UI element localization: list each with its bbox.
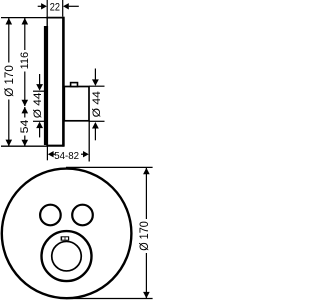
thermostat knob outer [42,231,92,281]
ticks [33,90,46,92]
left extension line [46,0,48,17]
dimension Ø 170 (right) [139,168,151,299]
right arrow [63,3,69,9]
dimension 22 (top) [38,0,79,17]
concealed body box [64,87,89,121]
right arrow [83,151,89,157]
bottom arrow [92,122,99,129]
left extension line [46,146,48,160]
svg-text:54: 54 [19,120,31,134]
dimension 116 (left inner upper) [19,18,31,106]
select button right [72,205,93,226]
top arrow (outside, pointing down) [39,74,41,85]
select button left [40,205,61,226]
knob index marker [61,236,70,240]
top arrow [94,69,96,80]
extension line top-left (plate top to left dims) [1,17,47,19]
dimension Ø 44 (right, cartridge) [89,69,104,141]
left arrow [48,151,54,157]
svg-text:Ø 44: Ø 44 [32,93,44,119]
svg-text:Ø 170: Ø 170 [139,221,151,251]
svg-text:22: 22 [50,2,60,14]
left thin upper segment [46,17,48,27]
right edge [62,17,65,147]
right extension line [62,0,64,17]
svg-text:116: 116 [19,52,31,70]
extension line bottom [66,298,153,300]
plate circle Ø170 [2,169,132,299]
top edge [46,17,64,19]
dimension 54 (left inner lower) [19,107,31,146]
svg-text:54-82: 54-82 [54,151,79,162]
thermostat knob inner ring [52,241,82,271]
extension line top (circle top to right dim) [66,166,153,168]
bottom arrow (outside, pointing up) [36,122,43,129]
dimension Ø 170 (left outer) [4,18,16,146]
dimension Ø 44 (left, handle) [32,74,45,137]
plate (escutcheon) side profile [44,17,64,147]
ticks [89,85,104,87]
left thick face bar [44,26,48,145]
nub on box top [71,83,78,87]
svg-text:Ø 44: Ø 44 [91,91,103,117]
left arrow [38,5,42,7]
dimension 54-82 (installation depth) [47,121,89,162]
extension line bottom-left (plate bottom to left dims) [1,145,47,147]
bottom edge [46,145,64,147]
right extension line [88,121,90,162]
svg-text:Ø 170: Ø 170 [4,65,16,97]
